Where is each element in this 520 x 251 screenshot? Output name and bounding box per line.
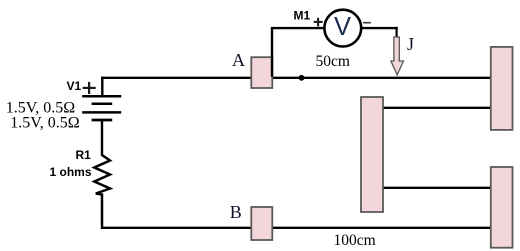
- svg-text:M1: M1: [294, 9, 311, 23]
- svg-text:100cm: 100cm: [334, 232, 376, 249]
- svg-text:A: A: [232, 50, 245, 70]
- svg-text:B: B: [230, 202, 242, 222]
- svg-text:50cm: 50cm: [316, 53, 350, 70]
- svg-text:R1: R1: [76, 148, 92, 162]
- svg-text:1.5V, 0.5Ω: 1.5V, 0.5Ω: [10, 114, 79, 131]
- svg-text:J: J: [407, 34, 414, 54]
- svg-text:1 ohms: 1 ohms: [50, 165, 92, 179]
- svg-text:V1: V1: [67, 79, 82, 93]
- svg-text:V: V: [334, 13, 351, 41]
